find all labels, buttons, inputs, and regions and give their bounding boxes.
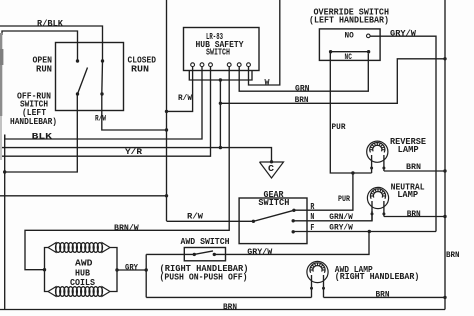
junction dot V3 GRY/W-BRN <box>443 57 446 60</box>
label R/W (gear) <box>187 211 204 221</box>
gear switch pivot <box>252 220 255 223</box>
svg-text:W: W <box>265 78 271 88</box>
label LR-83 HUB SAFETY SWITCH <box>196 31 244 58</box>
label AWD LAMP (RIGHT HANDLEBAR) <box>335 264 420 282</box>
label BRN (reverse) <box>406 162 421 172</box>
svg-text:GRY/W: GRY/W <box>390 28 417 38</box>
override NC left contact <box>329 50 332 53</box>
svg-text:BRN: BRN <box>223 302 237 312</box>
torn page edge artifact <box>0 33 3 160</box>
gear switch blade to R <box>253 210 294 221</box>
label NEUTRAL LAMP <box>391 181 425 200</box>
wire BRN reverse lamp to V3 <box>384 170 445 172</box>
svg-text:BRN: BRN <box>295 95 309 105</box>
label GEAR SWITCH <box>258 189 289 208</box>
label BRN/W <box>114 223 139 233</box>
override NC right contact <box>367 50 370 53</box>
svg-text:R/W: R/W <box>187 211 204 221</box>
svg-text:BRN: BRN <box>446 250 460 260</box>
label OPEN RUN <box>33 55 53 75</box>
svg-text:BRN: BRN <box>406 162 421 172</box>
label AWD HUB COILS <box>70 258 95 289</box>
label NC <box>345 52 352 62</box>
label OVERRIDE SWITCH (LEFT HANDLEBAR) <box>309 7 389 26</box>
label GRY/W (gear F) <box>329 223 353 233</box>
override switch box S2 <box>319 29 380 61</box>
AWD switch right contact <box>213 253 216 256</box>
AWD hub coils left side wire <box>45 248 49 292</box>
svg-text:BLK: BLK <box>32 132 53 142</box>
label AWD SWITCH <box>181 236 230 247</box>
label (RIGHT HANDLEBAR) (PUSH ON-PUSH OFF) <box>160 263 249 283</box>
reverse lamp right leg <box>383 155 385 171</box>
wire Y/R pin3 to left edge <box>0 67 211 157</box>
svg-text:NO: NO <box>345 31 354 41</box>
wire to connector C from left edge <box>0 148 272 162</box>
LR-83 pin 6 <box>247 63 251 67</box>
svg-text:COILS: COILS <box>70 277 95 288</box>
label R/W (pin1) <box>178 93 193 103</box>
neutral lamp right terminal <box>382 212 385 215</box>
svg-text:R/W: R/W <box>178 93 193 103</box>
wire to AWD switch left contact <box>146 253 194 255</box>
AWD lamp DS3 <box>307 261 328 282</box>
AWD hub coils right side wire <box>110 248 117 292</box>
gear switch box S3 <box>239 198 307 244</box>
label GRN/W <box>329 212 353 222</box>
svg-text:GRY/W: GRY/W <box>329 223 353 233</box>
label BRN (bus) <box>223 302 237 312</box>
wire from left edge to V1 junction <box>0 195 167 197</box>
label BRN (neutral) <box>407 209 421 219</box>
AWD lamp left terminal <box>310 287 313 290</box>
AWD switch left contact <box>193 253 196 256</box>
junction dot V1/pin1 <box>165 110 168 113</box>
label N <box>310 211 314 222</box>
off-run switch right contact bottom <box>100 92 103 95</box>
vertical rail W wire to top edge <box>249 0 280 85</box>
svg-text:PUR: PUR <box>338 194 351 204</box>
svg-text:GRY: GRY <box>125 262 139 272</box>
wire BRN top run to right side <box>220 59 445 104</box>
AWD hub coils L1 upper coil <box>48 243 110 253</box>
label GRY/W (top) <box>390 28 417 38</box>
wire R/W pin1 to V1 <box>167 67 193 112</box>
label GRN <box>295 83 310 93</box>
svg-text:SWITCH: SWITCH <box>206 47 230 58</box>
wire from bracket dot down <box>219 80 221 148</box>
wire R/W from V1 to gear switch common <box>167 220 254 222</box>
label BLK <box>32 132 53 142</box>
junction dot PUR <box>351 171 354 174</box>
label C <box>268 163 274 174</box>
off-run switch left contact top <box>76 59 79 62</box>
LR-83 pin 4 <box>227 63 231 67</box>
wire GRN pin5 to override NC contact <box>239 54 368 92</box>
wire GRY/W gear F to right rail <box>293 231 436 233</box>
vertical rail V3 right BRN bus from top edge <box>444 0 446 310</box>
label BRN (awd lamp) <box>376 290 390 300</box>
off-run switch right contact top <box>101 59 104 62</box>
wire AWD node to AWD lamp <box>146 296 311 298</box>
junction dot GRY node <box>145 268 148 271</box>
svg-text:GRY/W: GRY/W <box>247 247 273 257</box>
connector C triangle <box>260 162 284 178</box>
left bus vertical to bottom BRN bus <box>4 135 6 310</box>
off-run switch open blade (left pole) <box>78 68 88 95</box>
reverse lamp left terminal <box>370 167 373 170</box>
LR-83 pin 5 <box>237 63 241 67</box>
junction dot V1/left wire <box>165 194 168 197</box>
label GRY/W (awd) <box>247 247 273 257</box>
override NC blade <box>331 51 369 53</box>
svg-text:LAMP: LAMP <box>397 189 418 200</box>
gear switch contact F <box>292 230 295 233</box>
svg-text:BRN/W: BRN/W <box>114 223 139 233</box>
LR-83 connector bracket <box>189 71 252 81</box>
reverse lamp DS1 <box>367 141 388 162</box>
svg-text:BRN: BRN <box>376 290 390 300</box>
junction dot on C wire <box>219 146 222 149</box>
LR-83 pin 1 <box>191 63 195 67</box>
svg-text:GRN/W: GRN/W <box>329 212 353 222</box>
neutral lamp DS2 <box>367 187 388 208</box>
svg-text:HANDLEBAR): HANDLEBAR) <box>10 116 57 127</box>
wire PUR gear R to reverse-lamp feed <box>294 173 353 210</box>
wire BRN/W pin4 down-left to AWD hub coils <box>25 67 229 270</box>
svg-text:(RIGHT HANDLEBAR): (RIGHT HANDLEBAR) <box>335 271 420 282</box>
label REVERSE LAMP <box>390 136 426 155</box>
junction dot V3 neutral BRN <box>443 215 446 218</box>
bottom BRN bus <box>0 309 445 311</box>
wire R/W off-run right pole down to vertical V1 <box>102 94 167 130</box>
AWD lamp right terminal <box>322 287 325 290</box>
gear switch contact R <box>292 209 295 212</box>
junction dot on gear F wire <box>368 230 371 233</box>
LR-83 hub safety switch box U1 <box>184 28 260 71</box>
label OFF-RUN SWITCH (LEFT HANDLEBAR) <box>10 91 57 128</box>
junction dot V3 reverse BRN <box>443 169 446 172</box>
label NO <box>345 31 354 41</box>
label F <box>310 222 314 233</box>
wire BLK pin2 to left edge <box>5 67 202 139</box>
neutral lamp right leg <box>383 201 385 217</box>
wire from left edge to off-run switch left contact <box>2 31 78 61</box>
wire off-run left pole down-left to node <box>5 94 78 172</box>
label Y/R <box>125 147 143 157</box>
wire BRN neutral lamp to V3 <box>384 216 445 218</box>
AWD switch blade <box>194 251 213 255</box>
svg-text:BRN: BRN <box>407 209 421 219</box>
junction dot coils left <box>43 268 46 271</box>
wire GRY/W NO terminal to right rail <box>370 36 436 231</box>
off-run switch left contact bottom <box>76 92 79 95</box>
off-run switch box <box>56 43 124 111</box>
off-run switch closed blade (right pole) <box>101 61 104 94</box>
vertical rail V1 from top edge <box>166 0 168 221</box>
AWD switch box S4 <box>184 248 225 261</box>
svg-text:R/BLK: R/BLK <box>37 18 63 29</box>
junction dot at C apex wire <box>270 160 273 163</box>
label PUR (lower) <box>338 194 351 204</box>
LR-83 pin 2 <box>200 63 204 67</box>
svg-text:RUN: RUN <box>36 64 52 75</box>
svg-text:Y/R: Y/R <box>125 147 143 157</box>
svg-text:(LEFT HANDLEBAR): (LEFT HANDLEBAR) <box>309 15 389 26</box>
wire GRY/W AWD switch to gear F wire <box>214 232 369 255</box>
AWD hub coils L2 lower coil <box>48 287 110 297</box>
AWD node vertical <box>145 254 147 297</box>
wire GRN/W gear N to neutral lamp <box>293 211 372 221</box>
label CLOSED RUN <box>128 55 157 75</box>
label GRY <box>125 262 139 272</box>
label R/W (off-run pole) <box>95 114 107 124</box>
label PUR (upper) <box>332 122 347 132</box>
svg-text:SWITCH: SWITCH <box>258 197 289 208</box>
reverse lamp right terminal <box>382 167 385 170</box>
svg-text:NC: NC <box>345 52 352 62</box>
wire R/BLK from left edge to off-run switch right contact <box>0 26 103 61</box>
junction dot V1/off-run wire <box>165 128 168 131</box>
AWD lamp right leg <box>323 275 325 297</box>
label W <box>265 78 271 88</box>
override NO terminal <box>367 34 371 38</box>
svg-text:GRN: GRN <box>295 83 310 93</box>
junction dot node left bus <box>3 170 6 173</box>
wire PUR into reverse lamp <box>353 172 372 174</box>
wire GRY coils to AWD switch node <box>117 269 146 271</box>
junction dot coils right <box>115 268 118 271</box>
svg-text:AWD SWITCH: AWD SWITCH <box>181 236 230 247</box>
neutral lamp left terminal <box>371 212 374 215</box>
svg-text:(PUSH ON-PUSH OFF): (PUSH ON-PUSH OFF) <box>160 272 248 283</box>
AWD lamp left leg <box>311 275 313 297</box>
junction dot BRN start <box>219 102 222 105</box>
label BRN (top) <box>295 95 309 105</box>
svg-text:R/W: R/W <box>95 114 107 124</box>
gear switch contact N <box>292 219 295 222</box>
svg-text:PUR: PUR <box>332 122 347 132</box>
label R/BLK <box>37 18 63 29</box>
wire BRN AWD lamp to V3 <box>324 296 446 298</box>
svg-text:C: C <box>268 163 274 174</box>
neutral lamp left leg <box>371 201 373 221</box>
svg-text:RUN: RUN <box>131 64 149 75</box>
junction dot V3 awd BRN <box>443 296 446 299</box>
junction dot on connector bracket <box>219 78 222 81</box>
reverse lamp left leg <box>371 155 373 173</box>
svg-text:LAMP: LAMP <box>398 144 419 155</box>
label BRN vertical rail <box>446 250 460 260</box>
LR-83 pin 3 <box>209 63 213 67</box>
label R <box>310 201 314 212</box>
wire PUR override NC down <box>330 52 353 173</box>
